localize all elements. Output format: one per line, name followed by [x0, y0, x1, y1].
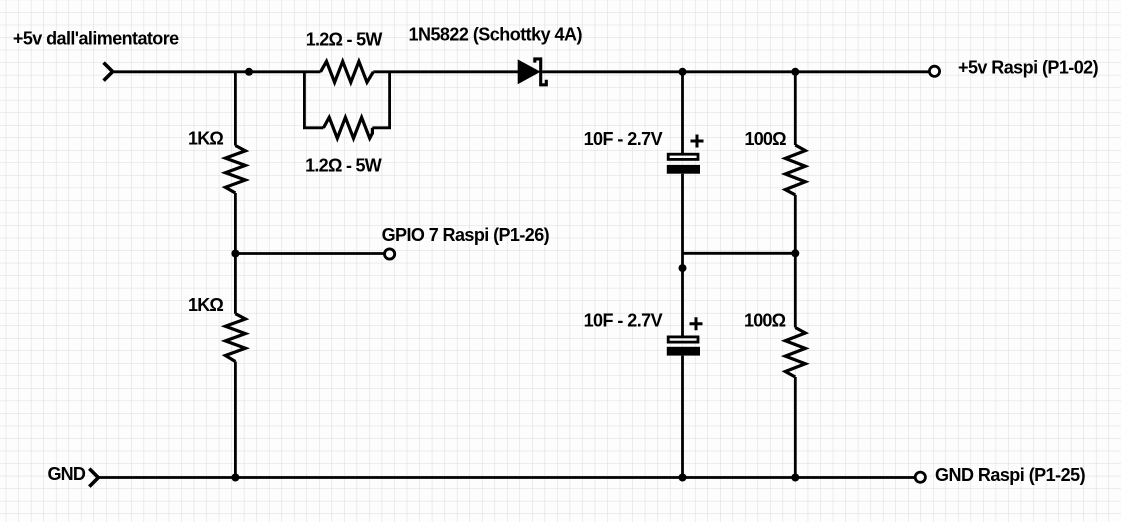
- junction dot mid rail right: [791, 249, 799, 257]
- wire: 1K branch middle: [234, 193, 237, 314]
- diode D1 Schottky cathode bar: [535, 59, 547, 85]
- terminal GPIO 7 Raspi (P1-26): [385, 249, 395, 259]
- capacitor C1 top plate (10F - 2.7V upper): [668, 154, 698, 159]
- resistor 100Ω (upper): [785, 145, 805, 195]
- svg-text:100Ω: 100Ω: [744, 310, 786, 330]
- junction dot at 100Ω branch: [791, 68, 799, 76]
- wire: 100Ω branch middle: [794, 195, 797, 328]
- wire: parallel loop (left drop, bottom run, right rise): [304, 72, 323, 128]
- diode D1 1N5822 triangle: [518, 60, 539, 83]
- svg-text:10F - 2.7V: 10F - 2.7V: [584, 310, 663, 330]
- wire: GPIO wire: [235, 252, 384, 255]
- svg-text:1.2Ω - 5W: 1.2Ω - 5W: [306, 29, 383, 49]
- input terminal chevron (+5v dall'alimentatore): [104, 63, 113, 81]
- svg-text:1KΩ: 1KΩ: [188, 295, 223, 315]
- capacitor C2 top plate (10F - 2.7V lower): [668, 337, 698, 342]
- plus sign C1: [691, 135, 704, 148]
- wire: top rail right segment: [542, 70, 929, 73]
- wire: 100Ω branch lower: [794, 377, 797, 478]
- wire: middle rail between branches: [683, 252, 795, 255]
- wire: capacitor branch middle: [681, 174, 684, 337]
- wire: 100Ω branch upper: [794, 72, 797, 145]
- wire: top rail left segment: [113, 70, 321, 73]
- svg-text:1N5822 (Schottky 4A): 1N5822 (Schottky 4A): [409, 25, 583, 45]
- junction dot GND x795: [791, 474, 799, 482]
- wire: top rail middle segment: [373, 70, 518, 73]
- svg-text:+5v dall'alimentatore: +5v dall'alimentatore: [13, 29, 179, 49]
- resistor 100Ω (lower): [785, 328, 805, 378]
- plus sign C2: [690, 317, 703, 330]
- resistor 1.2Ω-5W (bottom, parallel): [324, 117, 373, 138]
- resistor 1KΩ (upper): [225, 146, 245, 194]
- wire: 1K branch lower: [234, 362, 237, 478]
- wire: 1K branch upper: [234, 72, 237, 146]
- svg-text:1.2Ω - 5W: 1.2Ω - 5W: [305, 156, 382, 176]
- resistor 1.2Ω-5W (top, in main rail): [321, 61, 374, 82]
- junction dot GND x235: [231, 474, 239, 482]
- ground input chevron GND: [89, 469, 98, 487]
- terminal GND Raspi (P1-25): [915, 472, 925, 482]
- junction dot on top rail: [245, 68, 253, 76]
- junction dot at capacitor branch: [679, 68, 687, 76]
- svg-text:1KΩ: 1KΩ: [188, 129, 223, 149]
- junction dot GPIO node: [231, 250, 239, 258]
- svg-text:GND: GND: [48, 464, 86, 484]
- capacitor C1 bottom plate: [667, 165, 700, 174]
- wire: capacitor branch top: [681, 72, 684, 153]
- svg-text:GND Raspi (P1-25): GND Raspi (P1-25): [935, 465, 1086, 485]
- capacitor C2 bottom plate: [667, 347, 700, 356]
- svg-text:10F - 2.7V: 10F - 2.7V: [584, 129, 663, 149]
- wire: capacitor branch bottom: [681, 356, 684, 478]
- wire: parallel loop right side: [372, 72, 389, 128]
- terminal +5v Raspi (P1-02): [929, 66, 939, 76]
- junction dot below mid rail on capacitor branch: [679, 264, 687, 272]
- svg-text:+5v Raspi (P1-02): +5v Raspi (P1-02): [958, 57, 1099, 77]
- resistor 1KΩ (lower): [225, 314, 245, 362]
- svg-text:100Ω: 100Ω: [745, 129, 787, 149]
- svg-text:GPIO 7 Raspi (P1-26): GPIO 7 Raspi (P1-26): [382, 225, 550, 245]
- wire: bottom GND rail: [98, 476, 914, 479]
- junction dot GND x682: [679, 474, 687, 482]
